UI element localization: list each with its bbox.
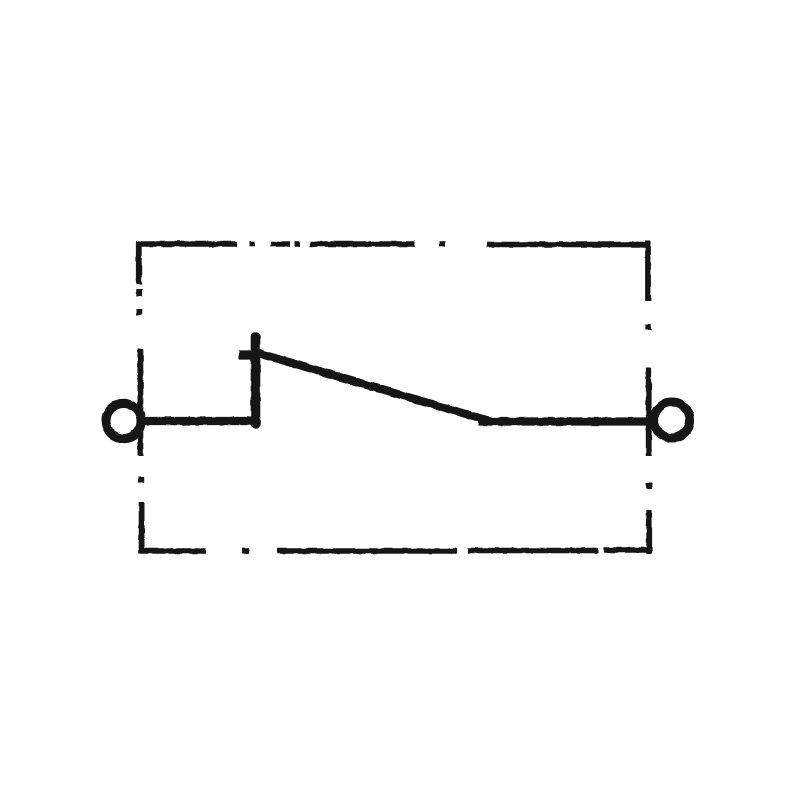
terminal T2 (right ring) [654, 402, 690, 438]
switch pivot stub [251, 337, 261, 424]
switch pivot tick [239, 350, 256, 359]
enclosure dashed border, bottom edge [140, 550, 651, 551]
terminal T1 (left ring) [106, 403, 141, 438]
enclosure dashed border, right edge [648, 241, 649, 554]
wire from T1 to switch pivot [142, 417, 259, 425]
enclosure dashed border, top edge [138, 241, 651, 247]
switch arm (moving contact, open) [256, 353, 488, 421]
enclosure dashed border, left edge [139, 241, 142, 554]
wire from switch arm to T2 [478, 417, 654, 425]
